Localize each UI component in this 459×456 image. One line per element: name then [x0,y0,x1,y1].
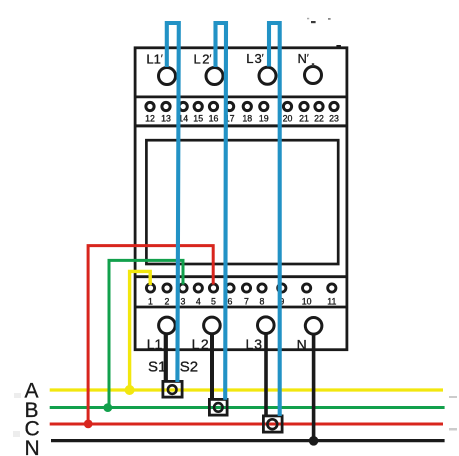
bottom strip terminal 4 [194,284,202,292]
svg-text:L2′: L2′ [194,52,212,67]
svg-text:L3′: L3′ [246,51,263,66]
junction dot on bus N [309,436,319,446]
terminal L3 [258,317,275,334]
terminal L2' [206,68,223,85]
svg-text:1: 1 [148,296,153,306]
svg-text:4: 4 [196,296,201,306]
bottom strip terminal 7 [242,284,250,292]
top strip terminal 14 [179,102,187,110]
terminal L1' [159,68,176,85]
top strip terminal 12 [146,102,154,110]
terminal N' [305,67,322,84]
current transformer CT2 on bus B [209,399,227,415]
artifact marks edges [13,393,457,437]
junction dot on bus A [125,385,135,395]
terminal L1 [159,317,176,334]
junction dot on bus C [84,420,93,429]
bottom strip terminal 10 [303,284,311,292]
svg-text:20: 20 [283,114,293,124]
svg-text:7: 7 [244,296,249,306]
top strip terminal 19 [260,102,268,110]
wire green from bus B to terminal 3 [109,260,183,407]
svg-text:15: 15 [193,114,203,124]
divider line above bottom terminal strip [135,275,347,278]
svg-text:13: 13 [161,114,171,124]
svg-text:L3: L3 [246,336,263,352]
wire red from bus C to terminal 5 [88,246,213,424]
bottom strip terminal 5 [209,284,217,292]
wire L3 terminal to CT3 [264,334,268,416]
terminal N [305,318,322,335]
bottom strip terminal 11 [328,284,336,292]
top strip terminal 22 [315,102,323,110]
svg-text:16: 16 [209,114,219,124]
bottom strip terminal 2 [163,284,171,292]
svg-text:N: N [25,437,40,456]
current transformer CT1 on bus A [163,381,182,397]
svg-text:22: 22 [314,114,324,124]
svg-text:L1: L1 [147,336,163,352]
svg-text:8: 8 [260,296,265,306]
terminal L2 [204,317,221,334]
svg-text:2: 2 [165,296,170,306]
top strip terminal 23 [330,102,338,110]
svg-text:L2: L2 [192,336,209,352]
top strip terminal 15 [194,102,202,110]
divider line below bottom terminal strip [135,306,347,309]
junction dot on bus B [103,403,112,412]
svg-text:5: 5 [211,296,216,306]
svg-text:3: 3 [181,296,186,306]
svg-text:S1: S1 [148,359,166,376]
blue wire U1: L1' to bus A through CT1 [167,23,179,382]
blue wire U3: L3' to bus C through CT3 [269,23,280,416]
current transformer CT3 on bus C [263,416,282,432]
display window [146,140,338,264]
wire yellow from bus A to terminal 1 [130,271,151,390]
bottom strip pin numbers 1-11 [148,296,336,306]
top strip terminal 18 [243,102,251,110]
meter body outline [135,48,347,350]
divider line below top terminal strip [135,124,347,127]
blue wire U2: L2' to bus B through CT2 [216,23,227,400]
bottom strip terminal 3 [179,284,187,292]
svg-text:18: 18 [242,114,252,124]
svg-text:19: 19 [259,114,269,124]
svg-text:N: N [297,337,307,353]
bottom strip terminal 9 [278,284,286,292]
terminal L3' [259,67,276,84]
wire N terminal to bus N [312,335,316,441]
bottom strip terminal 1 [146,284,154,292]
phase bus A (yellow) [50,388,443,391]
top strip terminal 21 [300,102,308,110]
svg-text:L1′: L1′ [146,52,162,67]
phase bus C (red) [50,422,443,425]
artifact marks top right [307,18,341,67]
svg-text:23: 23 [329,114,339,124]
wire L2 terminal to CT2 [210,334,214,400]
wire L1 terminal to CT1 [164,334,168,382]
svg-text:10: 10 [302,296,312,306]
top strip terminal 13 [162,102,170,110]
svg-text:11: 11 [327,296,336,306]
top strip terminal 16 [209,102,217,110]
neutral bus N (black) [51,439,445,442]
svg-text:S2: S2 [180,359,198,376]
top strip pin numbers 12-23 [145,114,339,124]
svg-text:N′: N′ [298,51,309,66]
top strip terminal 20 [283,102,291,110]
svg-text:12: 12 [145,114,155,124]
svg-text:6: 6 [228,296,233,306]
bottom strip terminal 8 [258,284,266,292]
svg-text:21: 21 [299,114,309,124]
phase bus B (green) [50,406,445,409]
divider line below top terminal section [135,96,347,99]
top strip terminal 17 [226,102,234,110]
bottom strip terminal 6 [226,284,234,292]
